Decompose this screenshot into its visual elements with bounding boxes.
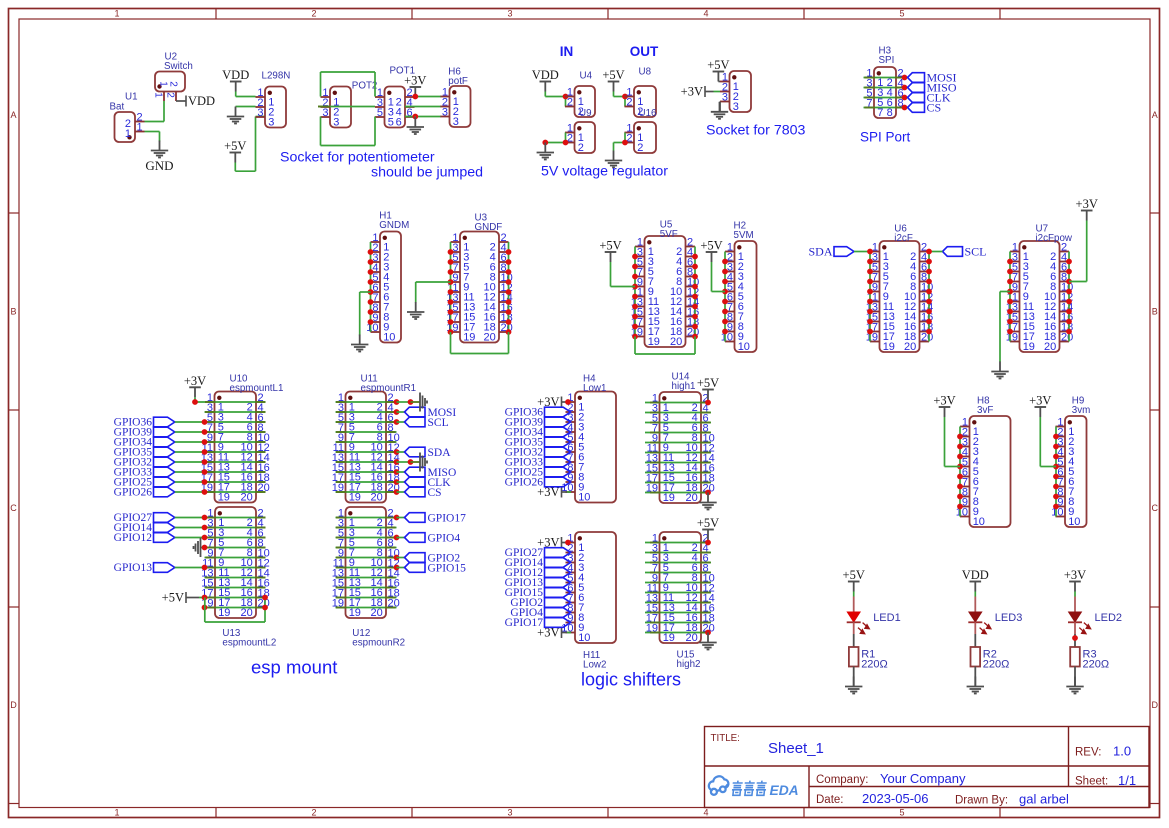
power +3V — [1076, 197, 1098, 221]
wire — [645, 482, 711, 484]
wire U2.1 to U1.2 — [145, 101, 165, 122]
junction — [926, 299, 932, 305]
refdes U10 — [230, 374, 284, 395]
wire POT1.6 to H6.3 — [405, 116, 441, 118]
power VDD — [222, 68, 249, 92]
junction — [957, 434, 963, 440]
body U4 — [575, 86, 596, 117]
wire — [508, 242, 510, 332]
net flag SCL — [405, 417, 449, 429]
wire row10 — [645, 492, 711, 494]
net flag GPIO33 — [505, 457, 571, 469]
junction — [692, 274, 698, 280]
connector H9 3vm — [1051, 396, 1090, 529]
junction — [692, 264, 698, 270]
wire — [336, 431, 397, 433]
refdes U3 — [475, 213, 503, 234]
net flag MOSI — [405, 407, 457, 419]
svg-text:3: 3 — [333, 117, 339, 129]
net flag GPIO12 — [505, 567, 571, 579]
power +5V — [224, 139, 246, 163]
wire 7803.3 to ground — [719, 102, 721, 112]
svg-text:19: 19 — [463, 332, 475, 344]
net flag GPIO39 — [114, 427, 175, 439]
net flag +3V bar — [537, 536, 571, 550]
net flag GPIO25 — [114, 477, 175, 489]
refdes H11 — [583, 650, 606, 671]
wire — [645, 592, 711, 594]
junction — [563, 140, 569, 146]
refdes U8 — [639, 67, 652, 78]
svg-text:1: 1 — [114, 9, 119, 19]
wire — [645, 612, 711, 614]
wire — [864, 87, 905, 89]
svg-text:1/1: 1/1 — [1118, 773, 1136, 788]
svg-text:Company:: Company: — [816, 774, 868, 786]
junction — [957, 504, 963, 510]
wire — [397, 537, 405, 539]
wire — [336, 587, 397, 589]
svg-text:20: 20 — [371, 607, 383, 619]
wire — [175, 527, 205, 529]
svg-text:OUT: OUT — [630, 44, 659, 59]
junction — [926, 309, 932, 315]
refdes POT1 — [390, 66, 416, 77]
wire U7 left to ground — [1000, 292, 1010, 363]
junction — [867, 329, 873, 335]
junction — [394, 399, 400, 405]
wire — [864, 77, 905, 79]
junction — [722, 299, 728, 305]
wire — [205, 567, 266, 569]
pins and pin numbers U5 — [631, 236, 700, 348]
body POT1 — [385, 87, 406, 128]
junction — [565, 399, 571, 405]
junction — [408, 459, 414, 465]
svg-text:CS: CS — [428, 487, 442, 499]
wire — [645, 412, 711, 414]
wire — [450, 242, 452, 332]
svg-text:A: A — [10, 110, 16, 120]
ground at POT1.6 — [414, 117, 416, 118]
power +5V — [700, 239, 722, 263]
junction — [1053, 454, 1059, 460]
junction — [506, 319, 512, 325]
connector U16 — [625, 108, 658, 154]
net flag GPIO14 — [114, 522, 175, 534]
svg-text:GPIO15: GPIO15 — [428, 563, 467, 575]
net flag CLK — [908, 91, 951, 105]
junction — [202, 439, 208, 445]
pins and pin numbers U2 — [152, 81, 178, 101]
svg-text:19: 19 — [663, 632, 675, 644]
junction — [202, 605, 208, 611]
wire — [853, 667, 855, 687]
wire — [336, 461, 397, 463]
svg-text:+3V: +3V — [1064, 568, 1086, 582]
wire — [175, 441, 205, 443]
junction — [394, 419, 400, 425]
junction — [867, 269, 873, 275]
svg-text:U16: U16 — [639, 108, 658, 119]
junction — [394, 515, 400, 521]
net flag GPIO17 — [505, 617, 571, 629]
svg-text:B: B — [10, 307, 16, 317]
svg-text:20: 20 — [670, 336, 682, 348]
wire — [1055, 427, 1057, 517]
svg-text:2: 2 — [165, 92, 176, 98]
wire — [205, 537, 266, 539]
junction — [448, 249, 454, 255]
body U16 — [634, 122, 656, 153]
junction — [202, 419, 208, 425]
junction — [448, 289, 454, 295]
svg-text:1: 1 — [114, 808, 119, 818]
refdes U9 — [579, 108, 592, 119]
svg-text:SPI: SPI — [879, 55, 895, 66]
connector U12 espmounR2 — [332, 507, 405, 649]
wire — [645, 562, 711, 564]
junction — [722, 269, 728, 275]
body H4 — [575, 392, 616, 503]
power +5V — [843, 568, 865, 592]
wire +3V to U7.8 — [1069, 221, 1087, 282]
wire VDD to U4 — [545, 92, 565, 107]
junction — [506, 309, 512, 315]
wire — [397, 491, 405, 493]
wire — [645, 462, 711, 464]
wire row1 — [645, 402, 711, 404]
net flag GPIO32 — [505, 447, 571, 459]
pins and pin numbers H6 — [440, 86, 459, 128]
svg-text:20: 20 — [241, 492, 253, 504]
pins and pin numbers U10 — [201, 392, 270, 504]
junction — [202, 429, 208, 435]
wire row1 — [645, 542, 711, 544]
junction — [957, 454, 963, 460]
rev field — [1075, 744, 1131, 759]
connector H4 — [561, 374, 616, 504]
body U12 — [346, 507, 387, 618]
resistor R2 220 ohm — [971, 647, 1010, 670]
net flag GPIO2 — [510, 597, 570, 609]
svg-text:U8: U8 — [639, 67, 652, 78]
body H7803 — [730, 71, 752, 112]
svg-text:20: 20 — [904, 341, 916, 353]
svg-text:3: 3 — [268, 117, 274, 129]
svg-text:+5V: +5V — [162, 591, 184, 605]
junction — [1053, 504, 1059, 510]
wire — [205, 547, 266, 549]
body H6 — [450, 86, 471, 127]
net flag SDA — [808, 244, 854, 258]
svg-text:espmounR2: espmounR2 — [352, 638, 405, 649]
body U14 — [660, 392, 702, 503]
power +5V — [707, 58, 729, 82]
wire +3V to H8.5 — [945, 417, 961, 467]
wire — [864, 107, 905, 109]
junction — [202, 595, 208, 601]
wire — [205, 431, 266, 433]
wire U16 pins to ground — [614, 133, 626, 151]
refdes H6 — [448, 67, 468, 88]
junction — [867, 259, 873, 265]
junction — [622, 94, 628, 100]
wire — [853, 592, 855, 597]
junction — [692, 294, 698, 300]
svg-text:2: 2 — [637, 142, 643, 154]
body H9 — [1065, 416, 1087, 527]
svg-text:20: 20 — [686, 492, 698, 504]
wire — [853, 634, 855, 647]
body H2 — [735, 241, 757, 352]
wire U1.1 to ground — [145, 132, 160, 142]
junction — [867, 249, 873, 255]
junction — [448, 299, 454, 305]
svg-text:19: 19 — [218, 607, 230, 619]
wire row10 — [205, 607, 265, 609]
body U5 — [645, 236, 686, 347]
junction — [692, 324, 698, 330]
svg-text:220Ω: 220Ω — [983, 658, 1010, 670]
refdes H9 — [1072, 396, 1091, 417]
pins and pin numbers POT1 — [375, 87, 415, 129]
svg-text:+3V: +3V — [933, 394, 955, 408]
connector U5 5VF — [631, 220, 700, 349]
svg-text:1: 1 — [125, 128, 131, 140]
svg-text:3: 3 — [722, 91, 728, 103]
refdes H2 — [734, 221, 754, 242]
ground — [991, 362, 1008, 379]
svg-text:C: C — [1152, 503, 1159, 513]
refdes U14 — [672, 372, 696, 393]
pins and pin numbers H11 — [561, 532, 590, 644]
svg-text:2: 2 — [626, 96, 632, 108]
junction — [448, 309, 454, 315]
wire — [397, 401, 411, 403]
svg-text:5: 5 — [388, 117, 394, 129]
body H8 — [970, 416, 1011, 527]
title block — [705, 727, 1150, 808]
junction — [1053, 464, 1059, 470]
connector U14 — [646, 372, 715, 505]
junction — [202, 515, 208, 521]
svg-text:20: 20 — [1044, 341, 1056, 353]
wire — [336, 607, 397, 609]
net flag GPIO25 — [505, 467, 571, 479]
junction — [692, 304, 698, 310]
junction — [926, 329, 932, 335]
wire +5V to U5 — [611, 262, 636, 287]
power +5V — [599, 239, 621, 263]
junction — [394, 449, 400, 455]
net flag SCL — [943, 244, 987, 258]
junction — [506, 329, 512, 335]
svg-text:+5V: +5V — [602, 68, 624, 82]
wire row4 to sideways ground — [201, 547, 205, 549]
wire — [205, 517, 266, 519]
junction — [202, 459, 208, 465]
refdes U12 — [352, 628, 405, 649]
power VDD — [962, 568, 989, 592]
refdes U13 — [222, 628, 276, 649]
junction — [632, 304, 638, 310]
junction — [1007, 309, 1013, 315]
wire — [205, 527, 266, 529]
svg-text:2: 2 — [311, 808, 316, 818]
net flag GPIO17 — [405, 513, 467, 525]
connector U1 Bat — [110, 92, 145, 143]
wire — [336, 441, 397, 443]
svg-text:19: 19 — [1023, 341, 1035, 353]
company field — [816, 771, 966, 786]
svg-text:1: 1 — [152, 92, 163, 98]
body U9 — [575, 122, 596, 153]
pins and pin numbers U9 — [565, 122, 584, 154]
wire — [205, 491, 266, 493]
wire — [175, 517, 205, 519]
ground — [699, 633, 716, 650]
wire — [645, 552, 711, 554]
wire — [397, 557, 405, 559]
svg-text:VDD: VDD — [188, 94, 215, 108]
junction — [1053, 434, 1059, 440]
junction — [722, 259, 728, 265]
junction — [368, 299, 374, 305]
junction — [448, 279, 454, 285]
wire POT2.1 to POT1.1 — [321, 72, 376, 97]
net flag GPIO4 — [510, 607, 570, 619]
body U13 — [215, 507, 256, 618]
pins and pin numbers H9 — [1051, 416, 1080, 528]
pins and pin numbers U11 — [332, 392, 400, 504]
svg-text:+5V: +5V — [707, 58, 729, 72]
power +5V — [697, 516, 719, 543]
pins and pin numbers H4 — [561, 392, 590, 504]
svg-text:GPIO13: GPIO13 — [114, 562, 153, 574]
junction — [368, 319, 374, 325]
svg-text:10: 10 — [578, 632, 590, 644]
svg-text:5: 5 — [377, 107, 383, 119]
refdes U7 — [1036, 224, 1073, 245]
svg-text:U1: U1 — [125, 92, 138, 103]
wire — [175, 491, 205, 493]
svg-text:VDD: VDD — [532, 68, 559, 82]
junction — [902, 85, 908, 91]
net flag GPIO35 — [505, 437, 571, 449]
svg-text:10: 10 — [738, 341, 750, 353]
junction — [902, 95, 908, 101]
junction — [692, 314, 698, 320]
junction — [722, 289, 728, 295]
wire — [694, 247, 696, 337]
wire — [175, 471, 205, 473]
wire — [634, 247, 636, 337]
junction — [368, 259, 374, 265]
net flag GPIO35 — [114, 447, 175, 459]
junction — [368, 269, 374, 275]
junction — [506, 279, 512, 285]
pins and pin numbers U4 — [565, 86, 584, 118]
body U2 — [155, 72, 185, 92]
svg-text:19: 19 — [648, 336, 660, 348]
net flag SDA — [405, 447, 452, 459]
wire — [645, 602, 711, 604]
junction — [202, 449, 208, 455]
wire — [205, 451, 266, 453]
wire — [205, 421, 266, 423]
svg-text:gal arbel: gal arbel — [1019, 792, 1069, 807]
svg-text:LED3: LED3 — [995, 612, 1023, 624]
net flag GPIO39 — [505, 417, 571, 429]
connector U13 espmountL2 — [201, 507, 276, 649]
svg-text:8: 8 — [887, 107, 893, 119]
junction — [202, 565, 208, 571]
svg-text:20: 20 — [484, 332, 496, 344]
junction — [705, 400, 711, 406]
svg-text:+3V: +3V — [404, 74, 426, 88]
svg-text:+3V: +3V — [1029, 394, 1051, 408]
junction — [926, 269, 932, 275]
svg-text:espmountL1: espmountL1 — [230, 383, 284, 394]
connector U2 Switch — [152, 52, 192, 102]
svg-text:+3V: +3V — [681, 85, 703, 99]
wire — [336, 547, 397, 549]
ground sideways — [194, 538, 201, 557]
svg-text:SCL: SCL — [965, 244, 987, 258]
junction — [926, 279, 932, 285]
svg-text:20: 20 — [686, 632, 698, 644]
wire — [869, 252, 871, 342]
net flag VDD at U2.2 — [176, 94, 215, 108]
body U11 — [346, 392, 387, 503]
net flag MOSI — [908, 71, 957, 85]
ground — [407, 302, 424, 319]
svg-text:2023-05-06: 2023-05-06 — [862, 791, 929, 806]
connector U6 i2cF — [866, 224, 934, 354]
svg-text:+5V: +5V — [697, 376, 719, 390]
junction — [368, 289, 374, 295]
junction — [692, 334, 698, 340]
svg-text:19: 19 — [663, 492, 675, 504]
net flag GPIO14 — [505, 557, 571, 569]
junction — [1053, 494, 1059, 500]
svg-text:VDD: VDD — [222, 68, 249, 82]
pins and pin numbers U14 — [646, 392, 715, 504]
junction — [1066, 319, 1072, 325]
wire — [397, 461, 411, 463]
junction — [632, 254, 638, 260]
svg-text:2: 2 — [311, 9, 316, 19]
junction — [1066, 269, 1072, 275]
LED LED2 — [1068, 597, 1122, 635]
wire — [645, 422, 711, 424]
refdes U15 — [677, 650, 701, 671]
body U7 — [1020, 241, 1060, 352]
wire — [928, 252, 930, 342]
sheet field — [1075, 773, 1136, 788]
junction — [394, 565, 400, 571]
ground — [351, 335, 368, 352]
wire — [336, 401, 397, 403]
wire — [205, 587, 266, 589]
refdes H8 — [977, 396, 993, 417]
wire — [397, 421, 405, 423]
wire U3 bottom loop — [451, 332, 509, 354]
junction — [1066, 279, 1072, 285]
wire U5 bottom loop — [635, 337, 695, 355]
svg-text:5: 5 — [899, 9, 904, 19]
